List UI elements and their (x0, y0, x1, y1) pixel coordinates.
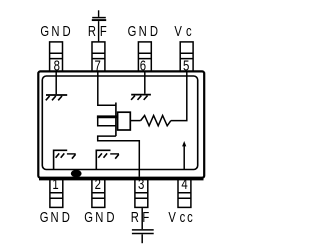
pin 2 lead (92, 178, 105, 207)
pin 7 number (95, 57, 101, 74)
svg-text:N: N (51, 208, 59, 225)
wire pin 6 to ground (144, 72, 146, 94)
pin 6 lead (138, 42, 151, 71)
svg-text:G: G (40, 208, 49, 225)
gate loop rungs 3 and 4 down to pin 3 wire (98, 117, 140, 177)
svg-text:c: c (186, 23, 192, 40)
svg-text:N: N (51, 23, 59, 40)
svg-text:8: 8 (54, 57, 60, 74)
svg-text:V: V (168, 208, 176, 225)
IC package bottom seating edge (thick) (39, 178, 204, 180)
net label RF (pin 3) (131, 208, 139, 225)
pin 7 lead (92, 42, 105, 71)
wire pin 8 to ground (55, 72, 57, 95)
ground symbol (pin 6) (131, 95, 151, 100)
pin 8 lead (50, 42, 63, 71)
svg-text:c: c (187, 208, 193, 225)
svg-text:D: D (150, 23, 158, 40)
pin 8 number (54, 57, 60, 74)
pin 2 number (95, 176, 101, 193)
capacitor C1 (RF input DC block, top) (92, 10, 106, 41)
svg-text:4: 4 (181, 176, 187, 193)
transistor Q1 gate bar (115, 103, 117, 137)
svg-text:R: R (131, 208, 139, 225)
svg-text:F: F (100, 23, 107, 40)
net label GND (pin 8) (40, 23, 49, 40)
svg-text:G: G (84, 208, 93, 225)
current feed arrow from pin 4 (Vcc) (183, 145, 185, 170)
wire pin 7 down to gate rung 1 (98, 72, 116, 106)
capacitor C2 (RF DC block, bottom) (132, 208, 154, 243)
svg-text:G: G (128, 23, 137, 40)
pin 5 number (183, 57, 189, 74)
transistor Q1 body box (118, 112, 131, 130)
net label RF (pin 7) (88, 23, 96, 40)
pin 1 number (52, 176, 58, 193)
svg-text:6: 6 (140, 57, 146, 74)
thick gate rung 2 (97, 115, 118, 118)
pin 3 lead (135, 178, 148, 207)
IC package outer body outline (38, 71, 204, 177)
net label Vcc (pin 4) (168, 208, 176, 225)
pin 1 indicator dot (71, 170, 82, 178)
wire resistor to pin 5 (Vc) (171, 72, 187, 121)
svg-text:N: N (95, 208, 103, 225)
svg-text:5: 5 (183, 57, 189, 74)
svg-text:2: 2 (95, 176, 101, 193)
net label GND (pin 2) (84, 208, 93, 225)
svg-text:D: D (62, 208, 70, 225)
ground symbol (pin 1, inverted) (54, 150, 76, 169)
IC package inner die outline (42, 76, 197, 170)
ground symbol (pin 2, inverted) (96, 150, 119, 169)
svg-text:N: N (139, 23, 147, 40)
svg-text:V: V (174, 23, 182, 40)
svg-text:G: G (40, 23, 49, 40)
pin 5 lead (180, 42, 193, 71)
svg-text:7: 7 (95, 57, 101, 74)
svg-text:1: 1 (52, 176, 58, 193)
svg-text:c: c (180, 208, 186, 225)
svg-text:D: D (106, 208, 114, 225)
svg-text:D: D (63, 23, 71, 40)
ground symbol (pin 8) (46, 95, 67, 100)
pin 3 number (138, 176, 144, 193)
svg-text:R: R (88, 23, 96, 40)
wire Q1 output to resistor (131, 120, 141, 122)
pin 1 lead (50, 178, 63, 207)
pin 6 number (140, 57, 146, 74)
pin 4 lead (178, 178, 191, 207)
pin 4 number (181, 176, 187, 193)
net label Vc (pin 5) (174, 23, 182, 40)
resistor R1 (internal bias/load) (141, 116, 171, 126)
svg-text:F: F (142, 208, 149, 225)
svg-text:3: 3 (138, 176, 144, 193)
net label GND (pin 6) (128, 23, 137, 40)
net label GND (pin 1) (40, 208, 49, 225)
